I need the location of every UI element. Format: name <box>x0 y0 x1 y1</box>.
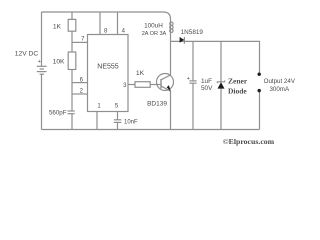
svg-text:8: 8 <box>104 28 108 34</box>
wire C1 to ground <box>71 114 73 130</box>
capacitor C3 1uF bottom wire <box>192 83 194 129</box>
svg-text:50V: 50V <box>201 85 213 92</box>
diode D1 1N5819 cathode bar <box>183 37 185 44</box>
svg-text:NE555: NE555 <box>97 64 119 71</box>
resistor R1 1K body <box>68 19 76 31</box>
svg-text:3: 3 <box>123 83 127 89</box>
output terminal dot bottom <box>258 89 261 92</box>
resistor R1 1K stub from rail <box>71 12 73 19</box>
wire pin3 <box>128 84 135 86</box>
capacitor C1 560pF plates <box>68 111 75 114</box>
svg-text:560pF: 560pF <box>49 110 67 117</box>
svg-text:10K: 10K <box>53 59 65 66</box>
wire output bottom <box>259 92 261 130</box>
svg-text:7: 7 <box>81 37 85 43</box>
wire left supply <box>41 12 43 66</box>
zener diode D2 top wire <box>220 41 222 82</box>
wire R1 to pin7 node <box>71 31 73 52</box>
capacitor C3 1uF top wire <box>192 41 194 81</box>
svg-text:100uH: 100uH <box>144 23 163 30</box>
wire emitter to ground <box>170 91 172 129</box>
svg-text:300mA: 300mA <box>269 86 289 93</box>
resistor R3 1K body <box>135 82 150 88</box>
battery V1 12V <box>37 66 47 74</box>
wire pin1 <box>96 112 98 130</box>
transistor Q1 emitter diagonal <box>161 86 171 91</box>
svg-text:BD139: BD139 <box>147 101 167 108</box>
wire column pin6 pin2 to C1 <box>71 70 73 112</box>
output terminal dot top <box>258 73 261 76</box>
transistor Q1 collector diagonal <box>161 75 171 80</box>
svg-text:+: + <box>38 59 41 65</box>
transistor Q1 base bar <box>160 79 162 89</box>
svg-text:1K: 1K <box>136 70 145 77</box>
svg-text:12V DC: 12V DC <box>15 51 39 58</box>
svg-text:1K: 1K <box>53 24 62 31</box>
diode D1 1N5819 triangle <box>180 37 185 43</box>
wire output rail <box>171 41 260 72</box>
svg-text:+: + <box>187 76 190 82</box>
svg-text:10nF: 10nF <box>124 120 138 126</box>
wire C2 to ground <box>117 122 119 129</box>
wire pin5 to C2 <box>117 112 119 120</box>
wire battery to ground rail <box>41 74 43 129</box>
zener diode D2 bottom wire <box>220 89 222 130</box>
wire collector to node <box>170 41 172 75</box>
wire pin2 <box>72 93 88 95</box>
wire pin6 <box>72 82 88 84</box>
svg-text:2A OR 3A: 2A OR 3A <box>142 31 167 37</box>
svg-text:1N5819: 1N5819 <box>181 29 204 36</box>
svg-text:Diode: Diode <box>228 87 247 96</box>
zener diode D2 triangle <box>218 82 225 89</box>
wire pin4 <box>117 12 119 35</box>
wire pin7 <box>72 41 88 43</box>
inductor L1 coil <box>170 19 173 41</box>
transistor Q1 emitter arrow <box>167 85 171 91</box>
svg-text:©Elprocus.com: ©Elprocus.com <box>223 137 275 146</box>
wire pin8 <box>99 12 101 35</box>
resistor R2 10K body <box>68 52 76 70</box>
svg-text:1uF: 1uF <box>201 78 212 85</box>
svg-text:4: 4 <box>122 28 126 34</box>
svg-text:5: 5 <box>115 104 119 110</box>
wire top rail <box>42 12 171 19</box>
svg-text:Zener: Zener <box>228 76 248 85</box>
svg-text:Output 24V: Output 24V <box>264 78 296 85</box>
ground rail <box>42 129 260 131</box>
zener diode D2 cathode bar <box>217 80 224 83</box>
capacitor C3 1uF plates <box>189 81 196 83</box>
IC U1 NE555 box <box>88 35 129 112</box>
svg-text:1: 1 <box>97 104 101 110</box>
wire R3 to base <box>150 84 161 86</box>
capacitor C2 10nF plates <box>114 120 122 123</box>
transistor Q1 BD139 circle <box>157 74 174 91</box>
